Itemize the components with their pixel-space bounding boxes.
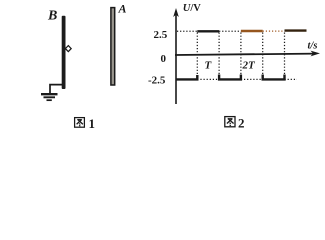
svg-text:t/s: t/s [308, 41, 318, 52]
svg-text:1: 1 [89, 116, 96, 131]
plate B [62, 16, 66, 89]
square wave +2.5 segment t=T..2T [197, 30, 219, 32]
svg-text:2: 2 [238, 116, 245, 131]
svg-text:T: T [205, 60, 213, 72]
square wave -2.5 segment t=0..T [176, 75, 198, 79]
graph y-axis [175, 11, 177, 104]
hole in plate B (small diamond aperture) [65, 46, 71, 52]
square wave +2.5 segment t=3T..4T [241, 30, 263, 32]
ground [41, 94, 58, 100]
svg-text:0: 0 [161, 53, 167, 65]
graph x-axis [175, 54, 316, 55]
x-axis arrowhead [311, 51, 321, 57]
svg-text:U/V: U/V [183, 3, 202, 14]
dashed +2.5 reference line (brown tinted part) [263, 30, 285, 32]
wire from plate B to ground [50, 85, 63, 94]
caption 图1 glyph 图 [75, 118, 85, 128]
dashed +2.5 reference line [177, 30, 241, 32]
dashed -2.5 reference line [197, 78, 297, 80]
square wave +2.5 segment t=5T..6T [285, 29, 307, 31]
y-axis arrowhead [173, 8, 179, 17]
square wave -2.5 segment t=2T..3T [219, 75, 241, 80]
caption 图2 glyph 图 [225, 117, 235, 127]
svg-text:B: B [47, 9, 57, 24]
plate A [111, 8, 115, 85]
square wave -2.5 segment t=4T..5T [263, 75, 285, 80]
svg-text:2T: 2T [242, 60, 257, 72]
dashed vertical transition lines [197, 33, 284, 79]
svg-text:2.5: 2.5 [154, 29, 168, 41]
svg-text:-2.5: -2.5 [148, 75, 166, 87]
svg-text:A: A [118, 2, 127, 16]
